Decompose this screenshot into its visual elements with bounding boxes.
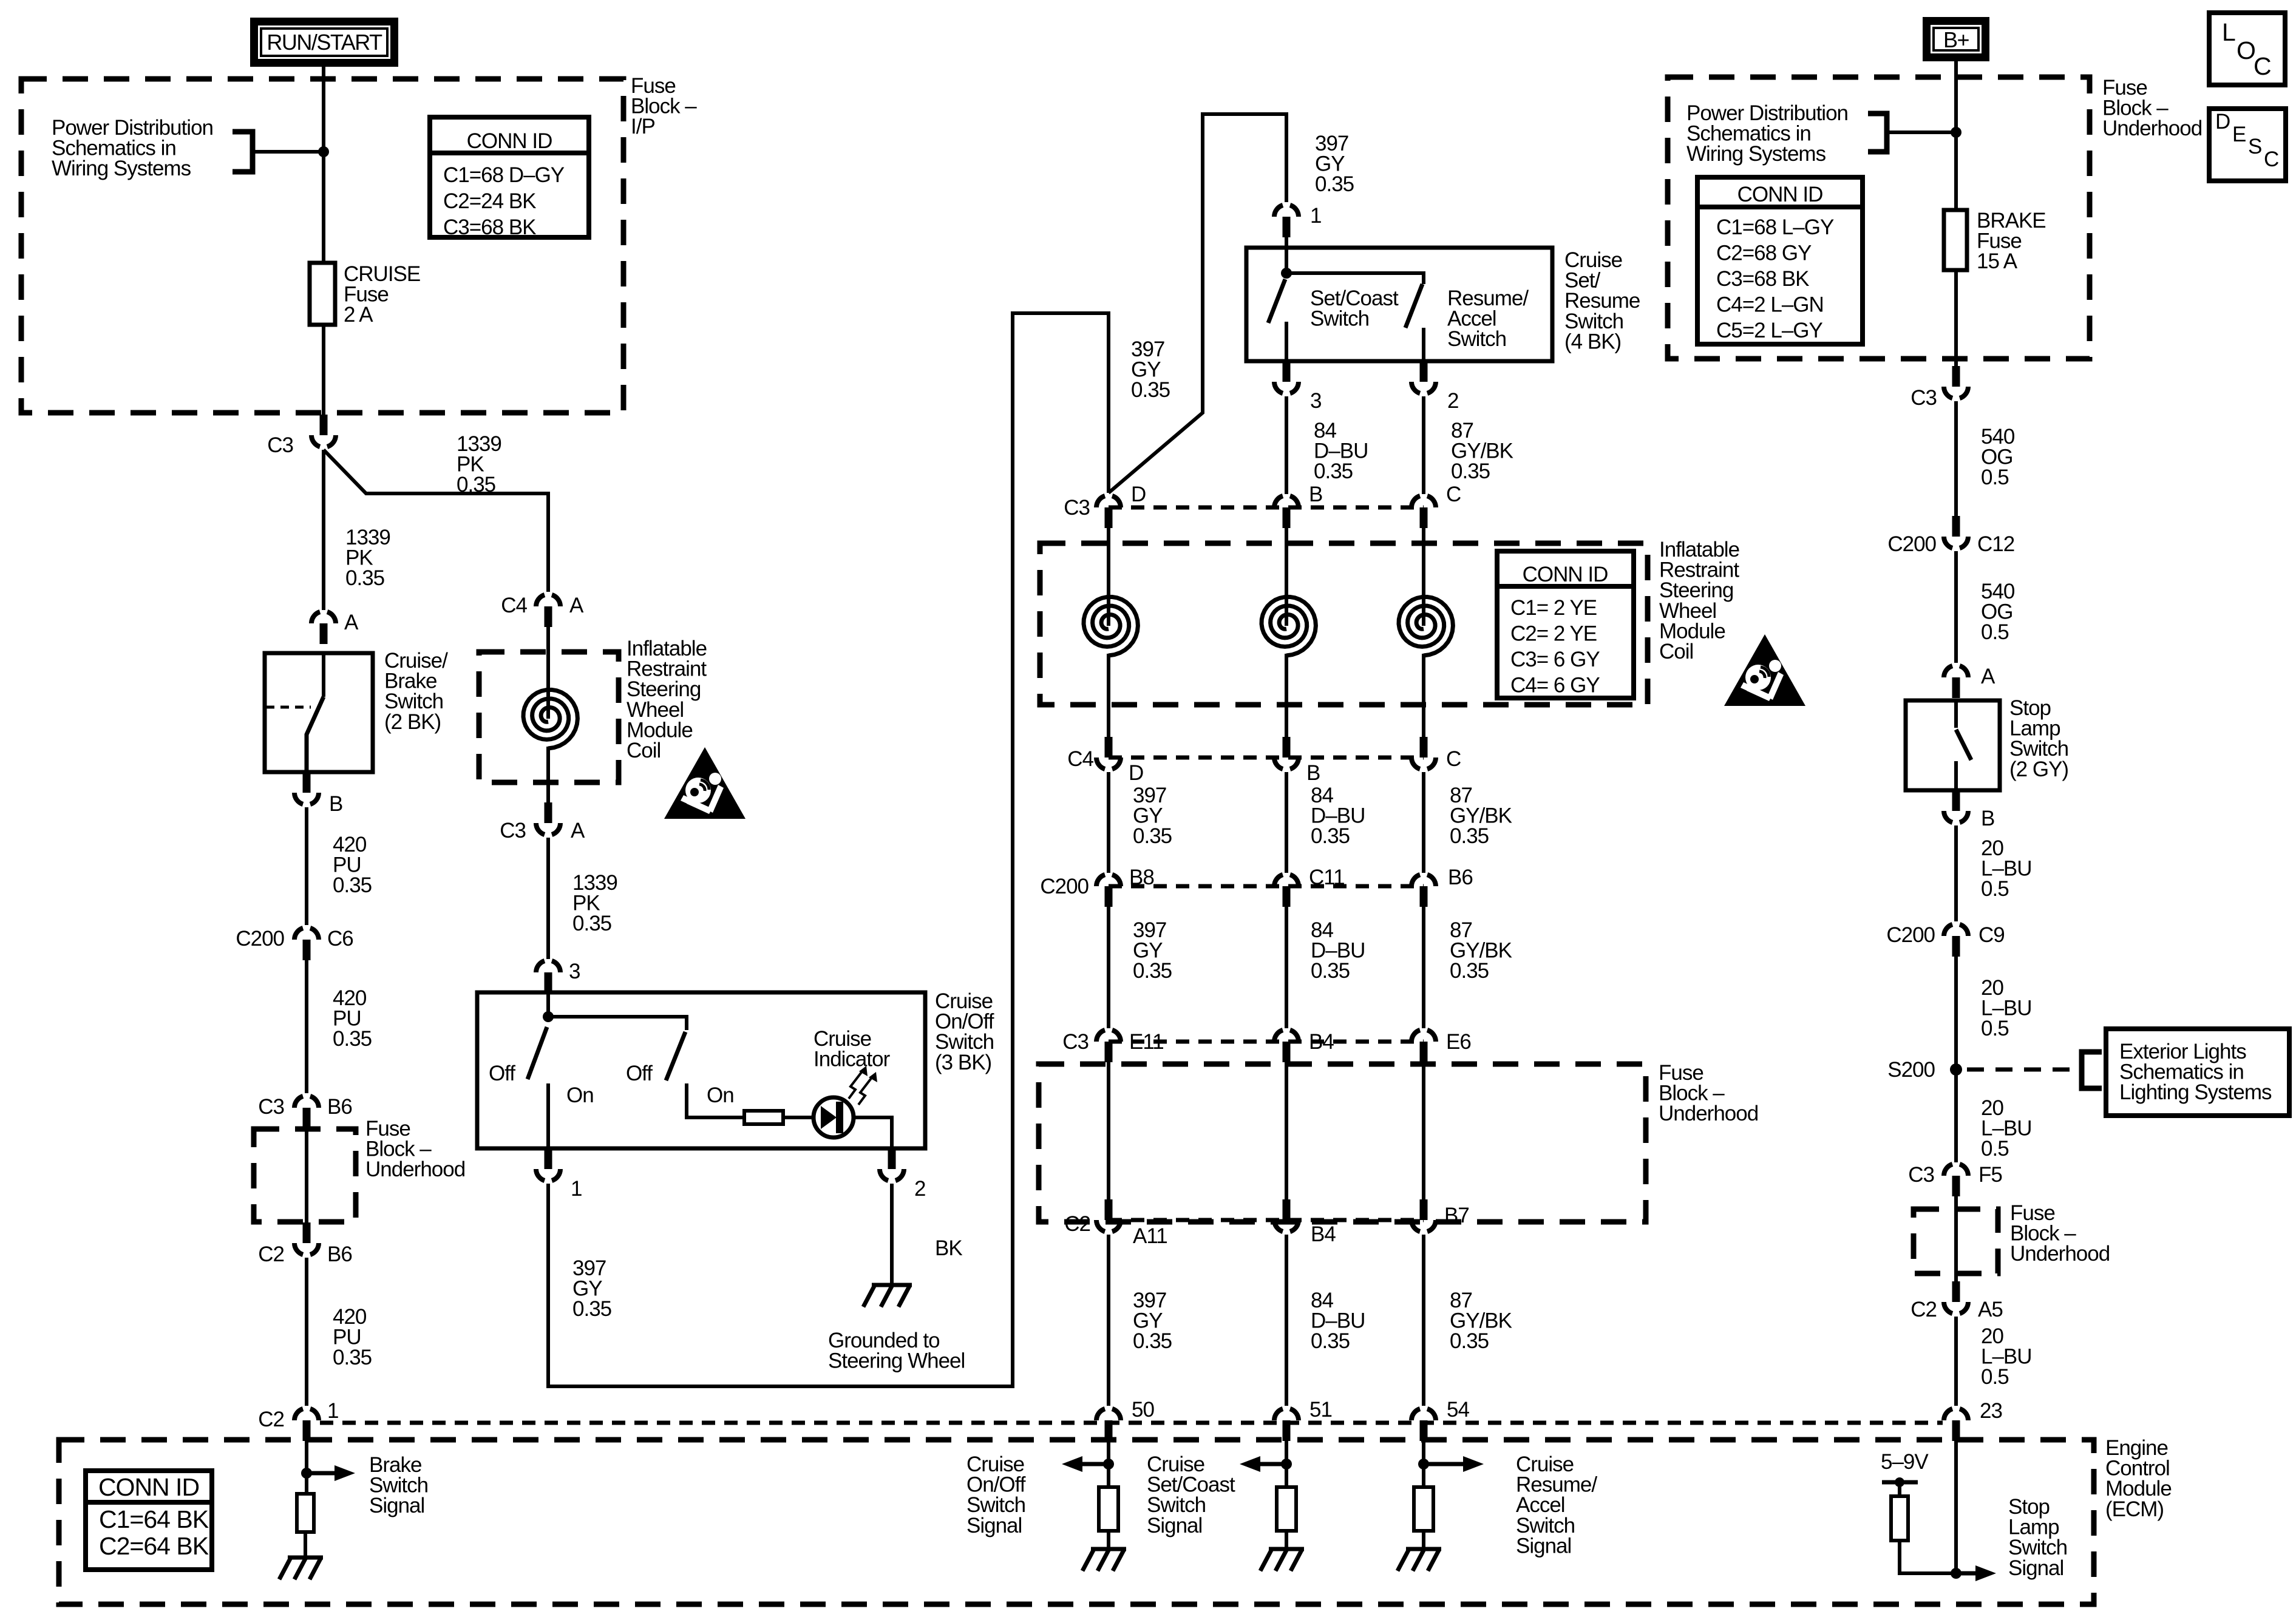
- wire pin51 into ECM: [1285, 1439, 1288, 1487]
- svg-text:(2 BK): (2 BK): [384, 710, 441, 734]
- svg-text:B6: B6: [327, 1242, 352, 1266]
- connector C200 B8: [1096, 875, 1121, 907]
- connector C2 pin 1 (ECM): [294, 1409, 319, 1441]
- svg-text:A: A: [1981, 665, 1995, 688]
- label Resume/Accel Switch: [1447, 286, 1529, 351]
- connector C200 C6: [294, 928, 319, 960]
- connector C3 B6: [294, 1096, 319, 1128]
- wire B6 to C3 E6: [1422, 907, 1425, 1028]
- wire E6 through fuse block: [1422, 1062, 1425, 1199]
- connector C3 E6: [1411, 1030, 1436, 1062]
- resume/accel switch blade: [1405, 284, 1422, 328]
- coil spiral (left): [523, 690, 577, 748]
- dashed lead to exterior lights note: [1967, 1068, 2079, 1072]
- svg-text:0.35: 0.35: [1450, 824, 1489, 848]
- set/coast lower contact: [1285, 322, 1288, 361]
- wire E11 through fuse block: [1107, 1062, 1110, 1199]
- svg-text:0.35: 0.35: [1311, 824, 1350, 848]
- svg-text:C200: C200: [1040, 875, 1089, 898]
- svg-text:F5: F5: [1978, 1163, 2002, 1187]
- svg-text:B7: B7: [1444, 1204, 1469, 1227]
- svg-text:2 A: 2 A: [344, 303, 373, 327]
- svg-text:(ECM): (ECM): [2105, 1497, 2164, 1521]
- label Cruise On/Off Switch (3 BK): [935, 989, 994, 1074]
- note Power Distribution Schematics in Wiring Systems (right): [1686, 101, 1848, 166]
- on/off switch 1 lower contact: [546, 1083, 550, 1148]
- svg-text:Off: Off: [626, 1062, 653, 1085]
- svg-text:B: B: [1309, 483, 1322, 506]
- ground (ECM pin51): [1260, 1549, 1304, 1571]
- wire resistor to LED: [783, 1116, 813, 1119]
- stop lamp switch lower contact: [1954, 761, 1958, 790]
- svg-text:C4: C4: [501, 594, 527, 617]
- note box Exterior Lights Schematics in Lighting Systems: [2106, 1029, 2289, 1116]
- svg-text:BK: BK: [935, 1236, 962, 1260]
- svg-text:S: S: [2248, 135, 2261, 158]
- svg-text:C: C: [1446, 483, 1461, 506]
- svg-text:On: On: [707, 1083, 734, 1107]
- label Engine Control Module (ECM): [2105, 1436, 2172, 1521]
- svg-text:B8: B8: [1129, 866, 1154, 889]
- ground (ECM pin1): [279, 1558, 323, 1579]
- svg-text:0.35: 0.35: [572, 1297, 611, 1321]
- svg-text:C5=2 L–GY: C5=2 L–GY: [1716, 319, 1823, 342]
- on/off switch 2 lower contact: [687, 1083, 744, 1117]
- svg-text:C9: C9: [1978, 923, 2005, 947]
- label Fuse Block - I/P: [631, 74, 697, 138]
- svg-text:C3: C3: [1064, 496, 1090, 520]
- svg-text:B6: B6: [1448, 866, 1473, 889]
- connector C2 A11: [1096, 1199, 1121, 1232]
- junction dot cruise on/off signal: [1103, 1459, 1114, 1470]
- junction dot brake switch signal: [301, 1468, 312, 1479]
- svg-text:0.5: 0.5: [1981, 1017, 2009, 1040]
- SRS warning triangle (left): [664, 747, 746, 819]
- LED light arrows: [849, 1066, 877, 1105]
- svg-text:0.35: 0.35: [1133, 959, 1172, 983]
- label Stop Lamp Switch Signal: [2008, 1495, 2067, 1580]
- CONN ID table (ECM): [86, 1471, 212, 1570]
- cruise indicator LED: [813, 1097, 854, 1137]
- connector C (row C4): [1411, 737, 1436, 769]
- svg-text:0.5: 0.5: [1981, 1137, 2009, 1161]
- svg-text:0.35: 0.35: [457, 473, 495, 497]
- junction dot on RUN/START feed: [318, 146, 329, 157]
- wire pin2 to ground: [890, 1184, 894, 1285]
- svg-text:D: D: [1131, 483, 1146, 506]
- svg-text:Wiring Systems: Wiring Systems: [52, 157, 191, 180]
- svg-text:Coil: Coil: [627, 739, 661, 762]
- svg-text:C1=68 L–GY: C1=68 L–GY: [1716, 215, 1834, 239]
- svg-text:Off: Off: [489, 1062, 515, 1085]
- wire C6 down to C3 B6: [305, 960, 308, 1093]
- junction dot set/coast signal: [1281, 1459, 1292, 1470]
- svg-text:C6: C6: [327, 927, 353, 951]
- connector B (row C3): [1274, 496, 1299, 528]
- connector C4 D: [1096, 737, 1121, 769]
- label Cruise Set/Coast Switch Signal: [1147, 1453, 1235, 1537]
- svg-text:B: B: [1981, 807, 1994, 830]
- connector 51 (ECM): [1274, 1409, 1299, 1441]
- svg-text:Switch: Switch: [1447, 327, 1506, 351]
- label 87 GY/BK 0.35 (to ECM): [1450, 1289, 1512, 1353]
- svg-text:C4= 6 GY: C4= 6 GY: [1510, 674, 1600, 697]
- junction dot stop lamp switch signal: [1951, 1568, 1961, 1579]
- svg-text:C3: C3: [267, 433, 293, 457]
- arrow cruise on/off switch signal: [1062, 1456, 1109, 1472]
- connector C3 (underhood out): [1944, 366, 1968, 398]
- svg-text:C200: C200: [1886, 923, 1935, 947]
- CONN ID table (fuse block I/P): [430, 117, 589, 239]
- svg-text:C2: C2: [1064, 1212, 1090, 1236]
- cruise/brake switch upper contact: [322, 653, 325, 697]
- svg-text:(2 GY): (2 GY): [2009, 758, 2068, 781]
- wire BRAKE fuse to C3: [1954, 270, 1958, 366]
- ECM resistor (pin54): [1414, 1487, 1433, 1531]
- connector C3 B4: [1274, 1030, 1299, 1062]
- dashed link line connector row C2 A11-B4-B7: [1109, 1218, 1424, 1222]
- svg-text:0.5: 0.5: [1981, 466, 2009, 489]
- wire B to C200 C9: [1954, 825, 1958, 921]
- wire C11 to C3 B4: [1285, 907, 1288, 1028]
- power label B+: [1923, 17, 1989, 61]
- svg-text:C3: C3: [1908, 1163, 1934, 1187]
- wire C3 to C200 C12: [1954, 401, 1958, 516]
- connector C3 F5: [1944, 1164, 1968, 1196]
- dashed link line connector row C3 E11-B4-E6: [1109, 1040, 1424, 1044]
- svg-text:B4: B4: [1309, 1030, 1334, 1054]
- dashed link line ECM connector row: [320, 1421, 1943, 1425]
- svg-text:B: B: [329, 792, 342, 816]
- label 84 D-BU 0.35 (to ECM): [1311, 1289, 1365, 1353]
- svg-text:Underhood: Underhood: [365, 1158, 465, 1181]
- svg-text:C11: C11: [1309, 866, 1345, 889]
- arrow cruise set/coast switch signal: [1240, 1456, 1286, 1472]
- wire 397 GY from pin1 jog to set/resume switch: [1109, 114, 1286, 493]
- label Fuse Block - Underhood (middle): [1659, 1061, 1758, 1125]
- wire B7 to ECM 54: [1422, 1235, 1425, 1406]
- connector 1 (cruise set/resume switch): [1274, 205, 1299, 237]
- junction dot on/off switch: [543, 1011, 554, 1022]
- svg-text:A5: A5: [1978, 1298, 2003, 1321]
- wire 3 down to coil connector B: [1285, 396, 1288, 494]
- ECM resistor (pin50): [1099, 1487, 1118, 1531]
- label Inflatable Restraint Steering Wheel Module Coil (middle): [1659, 538, 1739, 663]
- label 20 L-BU 0.5 (above S200): [1981, 976, 2032, 1040]
- svg-text:C3: C3: [1062, 1030, 1089, 1054]
- svg-text:0.35: 0.35: [572, 912, 611, 935]
- svg-text:C1=68 D–GY: C1=68 D–GY: [443, 163, 565, 187]
- connector C3 A (coil out): [536, 802, 560, 835]
- wire C12 to stop lamp switch A: [1954, 551, 1958, 663]
- wire pin23 into ECM: [1954, 1439, 1958, 1573]
- svg-text:C12: C12: [1977, 532, 2014, 556]
- coil spiral D: [1084, 597, 1138, 656]
- svg-text:CONN ID: CONN ID: [467, 129, 552, 153]
- arrow brake switch signal: [307, 1465, 355, 1481]
- connector C3 D: [1096, 496, 1121, 528]
- svg-text:E6: E6: [1446, 1030, 1471, 1054]
- wire C3 A down to on/off switch pin 3: [546, 838, 550, 959]
- connector 23 (ECM): [1944, 1409, 1968, 1441]
- svg-text:Indicator: Indicator: [813, 1048, 891, 1071]
- resume/accel lower contact: [1422, 328, 1425, 361]
- svg-text:C3=68 BK: C3=68 BK: [1716, 267, 1809, 291]
- wire 397 GY loop from on/off switch to coil D: [548, 313, 1109, 1386]
- cruise/brake switch dashed actuator line: [266, 706, 311, 709]
- svg-text:0.35: 0.35: [1133, 1329, 1172, 1353]
- wire D coil out: [1107, 654, 1110, 737]
- connector 54 (ECM): [1411, 1409, 1436, 1441]
- wire B down to C200 C6: [305, 807, 308, 925]
- wire pin50 into ECM: [1107, 1439, 1110, 1487]
- label 1339 PK 0.35 (branch to coil): [457, 432, 501, 497]
- svg-text:Wiring Systems: Wiring Systems: [1686, 142, 1826, 166]
- wire resistor to ground (pin1): [304, 1532, 307, 1558]
- wire bracket to RUN/START feed: [253, 150, 324, 154]
- connector B (row C4): [1274, 737, 1299, 769]
- wire D to C200 B8: [1107, 772, 1110, 873]
- svg-text:3: 3: [1310, 389, 1321, 413]
- wire B+ down to BRAKE fuse: [1954, 60, 1958, 210]
- svg-text:0.35: 0.35: [1314, 459, 1353, 483]
- wire B8 to C3 E11: [1107, 907, 1110, 1028]
- ECM pullup resistor (pin23): [1891, 1496, 1908, 1541]
- label 420 PU 0.35 (above ECM): [333, 1305, 372, 1369]
- svg-text:1: 1: [327, 1399, 338, 1423]
- svg-text:3: 3: [569, 960, 580, 983]
- svg-text:On: On: [566, 1083, 594, 1107]
- coil spiral B: [1262, 597, 1316, 656]
- DESC reference box: [2209, 109, 2286, 181]
- connector 1 (on/off switch output): [536, 1148, 560, 1181]
- ECM resistor (pin51): [1277, 1487, 1296, 1531]
- wire B to C200 C11: [1285, 772, 1288, 873]
- svg-text:0.35: 0.35: [1450, 959, 1489, 983]
- svg-text:A11: A11: [1133, 1224, 1167, 1248]
- label 20 L-BU 0.5 (above C3 F5): [1981, 1096, 2032, 1161]
- ground (ECM pin50): [1082, 1549, 1126, 1571]
- fuse BRAKE 15A: [1944, 210, 1967, 270]
- LOC reference box: [2209, 13, 2285, 85]
- wire resistor to ground (pin54): [1422, 1531, 1425, 1549]
- svg-text:B+: B+: [1943, 27, 1969, 52]
- svg-text:0.5: 0.5: [1981, 620, 2009, 644]
- on/off switch 2 blade: [666, 1032, 685, 1080]
- bracket exterior lights note: [2082, 1052, 2102, 1088]
- wire B4 to ECM 51: [1285, 1235, 1288, 1406]
- CONN ID table (steering wheel coil): [1497, 551, 1634, 698]
- junction dot set/resume: [1281, 268, 1292, 279]
- svg-text:0.35: 0.35: [1451, 459, 1490, 483]
- junction dot resume/accel signal: [1418, 1459, 1429, 1470]
- wire 2 down to coil connector C: [1422, 396, 1425, 494]
- svg-text:Signal: Signal: [1147, 1514, 1202, 1537]
- label Cruise Resume/Accel Switch Signal: [1516, 1453, 1597, 1558]
- fuse block underhood dashed box (left): [254, 1129, 356, 1222]
- wire pin1 into ECM: [305, 1436, 308, 1494]
- wire A into coil: [546, 627, 550, 719]
- connector 50 (ECM): [1096, 1409, 1121, 1441]
- fuse block I/P dashed box: [21, 79, 623, 413]
- wire to on/off switch 2: [548, 1017, 687, 1030]
- svg-text:Signal: Signal: [2008, 1556, 2063, 1580]
- svg-text:I/P: I/P: [631, 115, 655, 138]
- wire LED to pin 2: [854, 1117, 892, 1148]
- svg-text:Underhood: Underhood: [1659, 1102, 1758, 1125]
- svg-text:0.35: 0.35: [1311, 1329, 1350, 1353]
- dashed link line connector row C4 D-B-C: [1109, 756, 1424, 760]
- svg-text:(4 BK): (4 BK): [1564, 330, 1621, 353]
- label 540 OG 0.5 (upper): [1981, 425, 2015, 489]
- svg-text:1: 1: [1310, 204, 1321, 228]
- svg-text:C: C: [2254, 52, 2271, 80]
- wire branch C3 to C4 A (1339 PK): [324, 450, 548, 592]
- wire resistor to ground (pin51): [1285, 1531, 1288, 1549]
- svg-text:2: 2: [914, 1177, 925, 1201]
- CONN ID table (fuse block underhood): [1697, 177, 1863, 344]
- label Cruise On/Off Switch Signal: [966, 1453, 1026, 1537]
- svg-text:C2=68 GY: C2=68 GY: [1716, 242, 1812, 265]
- svg-text:Lighting Systems: Lighting Systems: [2119, 1080, 2272, 1104]
- wire C into coil: [1422, 528, 1425, 626]
- svg-text:B6: B6: [327, 1095, 352, 1119]
- svg-text:0.5: 0.5: [1981, 877, 2009, 901]
- svg-text:C2: C2: [258, 1242, 284, 1266]
- svg-text:0.35: 0.35: [1133, 824, 1172, 848]
- connector B (stop lamp switch): [1944, 790, 1968, 822]
- svg-text:C2= 2 YE: C2= 2 YE: [1510, 622, 1597, 646]
- connector C2 B6: [294, 1222, 319, 1255]
- label 420 PU 0.35 (above C3 B6): [333, 986, 372, 1051]
- svg-text:C2: C2: [1911, 1298, 1937, 1321]
- connector 2 (on/off switch ground): [880, 1148, 904, 1181]
- svg-text:15 A: 15 A: [1977, 249, 2018, 273]
- splice S200: [1950, 1063, 1962, 1076]
- label Cruise Indicator: [813, 1027, 891, 1071]
- svg-text:Switch: Switch: [1310, 307, 1369, 331]
- wire C3 down to cruise/brake switch A: [322, 450, 325, 610]
- label Fuse Block - Underhood (left): [365, 1117, 465, 1181]
- svg-text:B: B: [1306, 761, 1320, 785]
- connector C2 B7: [1411, 1199, 1436, 1232]
- svg-text:A: A: [569, 594, 584, 617]
- wire through left underhood fuse block: [305, 1128, 308, 1222]
- label 84 D-BU 0.35 (column B upper): [1311, 784, 1365, 848]
- svg-text:Underhood: Underhood: [2102, 117, 2202, 140]
- svg-text:0.35: 0.35: [345, 566, 384, 590]
- label 397 GY 0.35 (column D lower): [1133, 918, 1172, 983]
- power label RUN/START: [250, 18, 398, 67]
- svg-text:C2=24 BK: C2=24 BK: [443, 189, 536, 213]
- cruise/brake switch blade: [307, 697, 324, 772]
- svg-text:C2=64 BK: C2=64 BK: [99, 1532, 209, 1560]
- wire RUN/START down to CRUISE fuse: [322, 66, 325, 263]
- connector 3 (cruise on/off switch): [536, 961, 560, 993]
- label 20 L-BU 0.5 (above ECM 23): [1981, 1324, 2032, 1389]
- wire pin54 into ECM: [1422, 1439, 1425, 1487]
- svg-text:C3: C3: [258, 1095, 284, 1119]
- coil spiral C: [1399, 597, 1453, 656]
- ECM pullup resistor (pin1): [297, 1494, 314, 1532]
- svg-text:C4: C4: [1067, 747, 1093, 771]
- wire A5 to ECM 23: [1954, 1317, 1958, 1406]
- wire D into coil: [1107, 528, 1110, 626]
- svg-text:0.35: 0.35: [1311, 959, 1350, 983]
- label 397 GY 0.35 (set/resume feed): [1315, 132, 1354, 196]
- cruise set/resume switch box: [1246, 248, 1552, 361]
- label Set/Coast Switch: [1310, 286, 1399, 331]
- svg-text:Coil: Coil: [1659, 640, 1693, 663]
- svg-text:0.5: 0.5: [1981, 1365, 2009, 1389]
- cruise/brake switch box: [265, 653, 373, 772]
- svg-text:0.35: 0.35: [1131, 378, 1170, 402]
- wire A11 to ECM 50: [1107, 1235, 1110, 1406]
- svg-text:5–9V: 5–9V: [1881, 1450, 1929, 1474]
- label 87 GY/BK 0.35 (column C upper): [1450, 784, 1512, 848]
- svg-text:54: 54: [1447, 1398, 1469, 1422]
- svg-text:C3= 6 GY: C3= 6 GY: [1510, 648, 1600, 671]
- svg-text:D: D: [2215, 110, 2230, 134]
- connector B (cruise/brake switch): [294, 772, 319, 804]
- wire pin1 into switch: [1285, 237, 1288, 273]
- svg-text:23: 23: [1980, 1399, 2002, 1423]
- label 84 D-BU 0.35 (above coil): [1314, 419, 1368, 483]
- fuse block underhood dashed box (middle): [1039, 1064, 1646, 1222]
- indicator resistor: [744, 1111, 783, 1124]
- svg-text:(3 BK): (3 BK): [935, 1051, 991, 1074]
- arrow stop lamp switch signal: [1956, 1565, 1996, 1581]
- label 540 OG 0.5 (lower): [1981, 580, 2015, 644]
- bracket to power distribution note (right): [1868, 114, 1887, 152]
- fuse block underhood dashed box (right top): [1668, 77, 2090, 359]
- svg-text:1: 1: [571, 1177, 582, 1201]
- connector C200 B6: [1411, 875, 1436, 907]
- inflatable restraint coil dashed box (left): [479, 652, 619, 782]
- svg-text:E11: E11: [1129, 1030, 1164, 1054]
- connector C3 E11: [1096, 1030, 1121, 1062]
- label Cruise/Brake Switch (2 BK): [384, 649, 448, 734]
- label 20 L-BU 0.5 (above C9): [1981, 836, 2032, 901]
- svg-text:0.35: 0.35: [1315, 172, 1354, 196]
- label 397 GY 0.35 (on/off output): [572, 1256, 611, 1321]
- connector C4 A (coil feed): [536, 595, 560, 627]
- connector C200 C12: [1944, 516, 1968, 548]
- connector A (stop lamp switch): [1944, 666, 1968, 698]
- wire B coil out: [1285, 654, 1288, 737]
- label CRUISE Fuse 2 A: [344, 262, 420, 327]
- wire coil out: [546, 747, 550, 802]
- label Fuse Block - Underhood (right small): [2010, 1201, 2110, 1266]
- junction dot on B+ feed: [1951, 127, 1961, 138]
- wire B4 through fuse block: [1285, 1062, 1288, 1199]
- svg-text:A: A: [571, 819, 585, 842]
- label 84 D-BU 0.35 (column B lower): [1311, 918, 1365, 983]
- stop lamp switch box: [1906, 700, 2000, 790]
- svg-text:Signal: Signal: [966, 1514, 1022, 1537]
- inflatable restraint coil dashed box (middle): [1040, 543, 1648, 705]
- svg-text:CONN ID: CONN ID: [1737, 183, 1823, 206]
- note Power Distribution Schematics in Wiring Systems (left): [52, 116, 213, 180]
- svg-text:Underhood: Underhood: [2010, 1242, 2110, 1266]
- svg-text:O: O: [2237, 36, 2255, 64]
- svg-text:50: 50: [1132, 1398, 1154, 1422]
- svg-text:D: D: [1129, 761, 1143, 785]
- on/off switch 1 blade: [528, 1027, 547, 1079]
- svg-text:Signal: Signal: [1516, 1534, 1571, 1558]
- label 1339 PK 0.35 (to cruise/brake switch): [345, 526, 390, 590]
- wire C coil out: [1422, 654, 1425, 737]
